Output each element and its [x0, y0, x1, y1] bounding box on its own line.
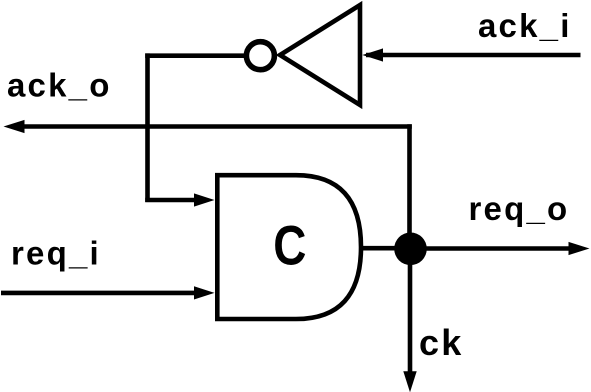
svg-text:ack_i: ack_i — [478, 7, 572, 44]
svg-text:ck: ck — [419, 322, 463, 363]
arrowhead ack_o output — [4, 120, 25, 133]
svg-text:C: C — [273, 214, 308, 276]
arrowhead req_o — [569, 242, 590, 255]
wire ck output — [408, 249, 413, 372]
wire ack_i input — [366, 53, 581, 58]
wire feedback to C input — [145, 198, 196, 203]
inverter output bubble — [246, 42, 274, 70]
junction node — [394, 233, 427, 266]
svg-text:req_i: req_i — [11, 235, 101, 272]
svg-text:req_o: req_o — [469, 190, 570, 227]
arrowhead into C top input — [194, 193, 215, 206]
arrowhead ck — [403, 371, 416, 392]
wire junction up to ack_o corner — [407, 124, 412, 249]
wire feedback vertical — [145, 53, 150, 202]
inverter U1 — [280, 5, 360, 105]
arrowhead req_i into C bottom input — [194, 286, 215, 299]
svg-text:ack_o: ack_o — [7, 66, 112, 103]
wire req_o output — [410, 246, 570, 251]
wire ack_o horizontal — [24, 124, 412, 129]
wire req_i input — [1, 291, 195, 296]
wire C output to junction — [361, 246, 410, 251]
arrowhead ack_i into inverter — [362, 48, 383, 61]
C-element U2 — [217, 175, 361, 319]
wire bubble to feedback corner — [145, 53, 244, 58]
